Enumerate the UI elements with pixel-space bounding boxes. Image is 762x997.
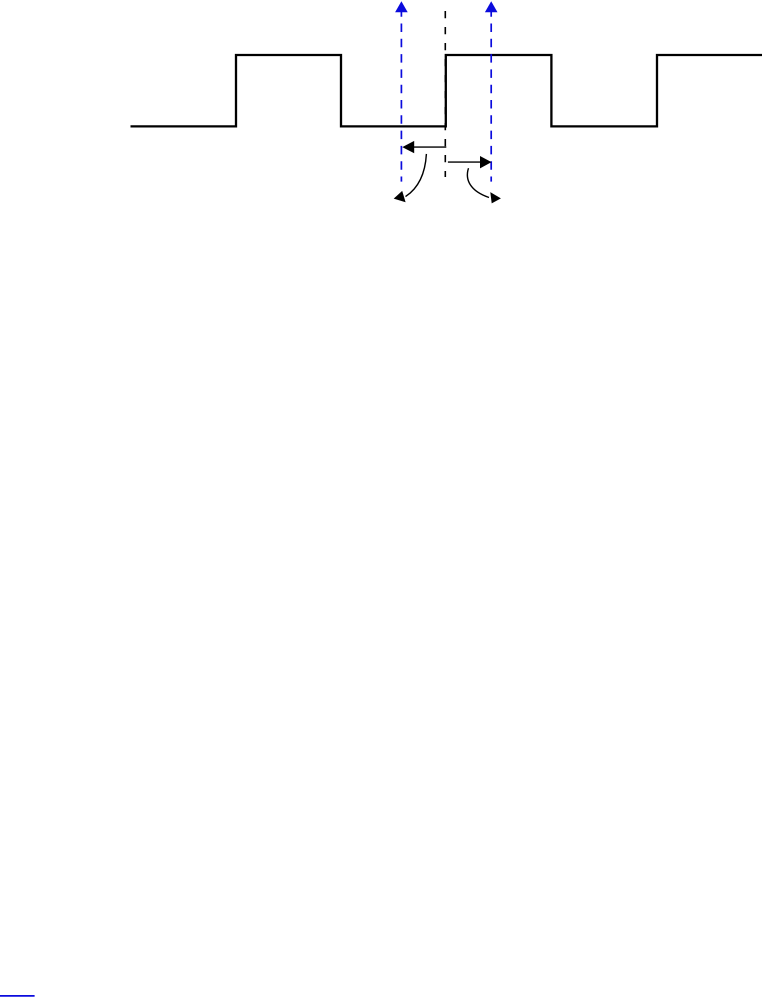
blue dashed vertical line right [490,11,492,182]
right horizontal arrow [448,161,482,163]
bottom-left blue rule [0,995,35,997]
blue arrowhead left [395,1,408,12]
blue arrowhead right [485,1,498,12]
black dashed vertical line [444,11,446,177]
blue dashed vertical line left [400,11,402,182]
curved arrow down-left [406,154,427,197]
square wave signal [131,55,762,126]
left horizontal arrow [412,146,446,148]
curved arrow down-right [467,168,489,197]
